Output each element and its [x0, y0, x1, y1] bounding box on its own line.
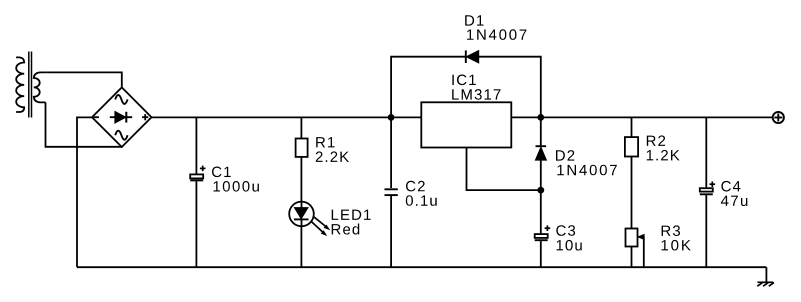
- C3 reference label: [556, 225, 575, 236]
- bridge internal diode: [110, 111, 132, 123]
- wire D2 to C3: [540, 160, 542, 234]
- bridge minus mark: [94, 116, 99, 118]
- capacitor C4: [700, 181, 715, 194]
- LED D LED1: [289, 202, 330, 237]
- diode D1: [466, 50, 479, 63]
- D2 reference label: [556, 150, 574, 161]
- bridge plus mark: [142, 114, 148, 120]
- C2 reference label: [406, 181, 425, 192]
- D1 value label: [467, 29, 526, 40]
- IC1 reference label: [452, 75, 475, 86]
- capacitor C3: [535, 225, 551, 240]
- wire C4 branch top: [705, 117, 707, 188]
- wire main positive rail left section: [152, 116, 422, 118]
- C3 value label: [557, 240, 582, 251]
- wire R2 to R3: [631, 157, 633, 229]
- bridge AC mark top (~): [115, 95, 127, 104]
- wire secondary bottom to bridge AC2: [46, 102, 122, 146]
- R1 value label: [316, 151, 349, 162]
- resistor R1: [296, 139, 308, 157]
- op-amp regulator IC1 box: [421, 102, 511, 147]
- wire C2 branch top: [390, 117, 392, 188]
- wire bridge minus to ground rail (left drop): [77, 117, 92, 267]
- C4 value label: [721, 196, 747, 206]
- capacitor C1: [190, 166, 205, 181]
- C2 value label: [406, 195, 437, 206]
- capacitor C2: [385, 189, 398, 195]
- R1 reference label: [316, 137, 334, 147]
- R3 value label: [662, 240, 691, 251]
- wire C1 branch top: [195, 117, 197, 174]
- wire IC1 ADJ pin: [467, 148, 541, 191]
- transformer secondary winding: [34, 72, 47, 102]
- wire D1 left leg: [391, 57, 466, 118]
- wire R1 to LED1: [300, 157, 302, 202]
- R2 reference label: [647, 135, 665, 146]
- resistor R2: [625, 137, 638, 156]
- wire R2 branch top: [631, 117, 633, 137]
- transformer primary winding: [16, 57, 24, 112]
- D2 value label: [557, 165, 616, 176]
- wire main positive rail right section: [511, 116, 772, 118]
- wire C2 branch bottom: [390, 196, 392, 267]
- LED1 reference label: [332, 210, 371, 220]
- wire D1 right leg: [479, 57, 541, 118]
- D1 reference label: [465, 15, 483, 25]
- C4 reference label: [721, 181, 740, 192]
- wire C1 branch bottom: [195, 181, 197, 267]
- wire C4 to ground rail: [705, 195, 707, 267]
- wire secondary top to bridge AC1: [46, 72, 122, 87]
- wire C3 to ground rail: [540, 241, 542, 267]
- C1 value label: [214, 181, 259, 192]
- potentiometer R3: [626, 229, 645, 268]
- R2 value label: [647, 150, 680, 161]
- C1 reference label: [212, 167, 231, 178]
- wire R3 to ground rail: [631, 247, 633, 268]
- wire R1 branch top: [300, 117, 302, 138]
- bridge rectifier BR diamond: [92, 87, 152, 147]
- wire LED1 to ground rail: [300, 226, 302, 267]
- junction node at ADJ/D2: [537, 187, 544, 194]
- transformer core: [29, 52, 32, 118]
- bridge AC mark bottom (~): [115, 131, 127, 140]
- LED1 value label: [332, 224, 360, 235]
- diode D2: [535, 146, 546, 160]
- wire D2 branch top: [540, 117, 542, 146]
- output terminal (+): [773, 112, 784, 123]
- wire ground rail (bottom): [77, 266, 766, 268]
- junction node at C2/D1: [388, 114, 395, 121]
- IC1 value label: [452, 89, 500, 100]
- R3 reference label: [662, 225, 680, 236]
- junction node at D2/D1: [537, 114, 544, 121]
- ground symbol: [757, 282, 774, 286]
- wire ground drop: [765, 267, 767, 282]
